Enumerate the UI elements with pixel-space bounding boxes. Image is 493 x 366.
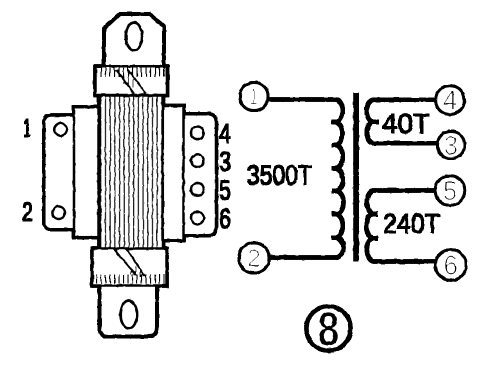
svg-text:1: 1 bbox=[24, 113, 31, 143]
svg-text:3: 3 bbox=[444, 131, 458, 161]
svg-text:4: 4 bbox=[443, 85, 458, 116]
svg-text:5: 5 bbox=[443, 176, 457, 206]
svg-text:2: 2 bbox=[248, 245, 261, 273]
svg-text:5: 5 bbox=[219, 175, 231, 206]
svg-text:3: 3 bbox=[219, 146, 231, 177]
svg-text:4: 4 bbox=[219, 118, 231, 149]
svg-text:2: 2 bbox=[22, 197, 33, 227]
svg-text:1: 1 bbox=[250, 85, 258, 110]
svg-text:8: 8 bbox=[318, 304, 340, 357]
svg-text:40T: 40T bbox=[382, 108, 430, 139]
svg-text:3500T: 3500T bbox=[247, 160, 312, 191]
svg-text:240T: 240T bbox=[383, 208, 440, 239]
svg-text:6: 6 bbox=[219, 203, 231, 234]
svg-text:6: 6 bbox=[444, 250, 459, 281]
